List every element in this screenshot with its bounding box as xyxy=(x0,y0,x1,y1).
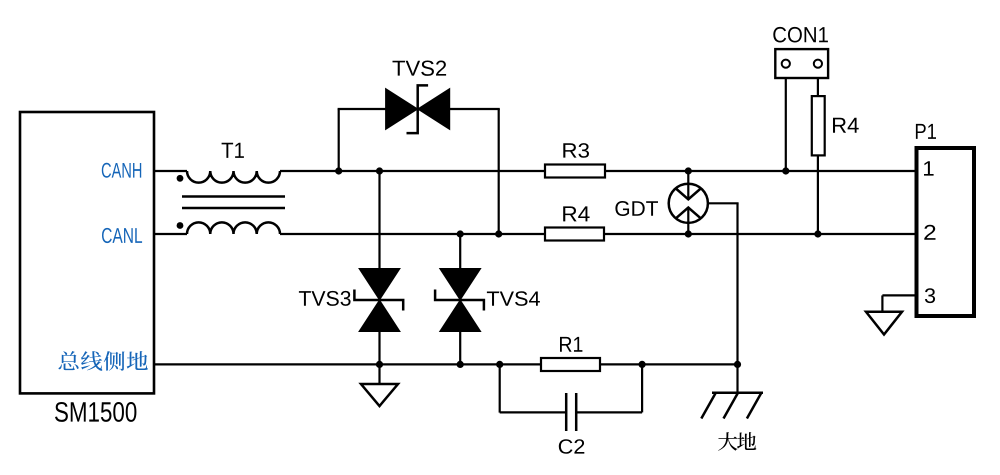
wire CON1 pin1 to CANH xyxy=(785,78,787,171)
transformer T1 core xyxy=(182,195,285,198)
junction bus/TVS3 xyxy=(376,361,383,368)
gas discharge tube GDT xyxy=(669,184,708,223)
label TVS2 xyxy=(392,60,446,75)
transformer T1 secondary winding xyxy=(187,222,280,234)
T1 secondary polarity dot xyxy=(177,222,184,229)
label C2 xyxy=(559,439,585,454)
ground symbol (below TVS3) xyxy=(378,364,380,384)
wire TVS4 top leg xyxy=(459,234,461,269)
wire GDT top electrode xyxy=(687,171,689,199)
wire CON1 pin2 to R4 xyxy=(817,78,819,96)
wire R4 to CANL xyxy=(817,155,819,234)
T1 primary polarity dot xyxy=(177,175,184,182)
TVS diode TVS2 xyxy=(386,89,418,130)
wire P1 pin3 to ground xyxy=(882,294,916,296)
wire GDT to earth xyxy=(708,202,739,204)
wire C2 branch left xyxy=(499,364,501,412)
wire C2 branch right xyxy=(576,411,642,413)
label GDT xyxy=(615,201,658,216)
junction bus/earth/GDT xyxy=(734,361,741,368)
label 大地 (earth) xyxy=(718,432,756,451)
label R4 (CON1 branch) xyxy=(833,118,859,133)
wire GDT bottom electrode xyxy=(687,208,689,235)
transformer T1 primary winding xyxy=(187,171,280,183)
label R4 (series CANL) xyxy=(563,206,589,221)
junction bus/C2 branch xyxy=(496,361,503,368)
junction R1/C2 right xyxy=(639,361,646,368)
wire CANH R3 to P1 xyxy=(605,170,917,172)
pin number 2 xyxy=(924,225,935,240)
wire CANL R4 to P1 xyxy=(604,233,917,235)
junction CANH/TVS2 xyxy=(335,167,342,174)
wire CANL SM1500 to T1 xyxy=(154,233,187,235)
TVS diode TVS3 xyxy=(359,269,400,301)
wire TVS4 bottom leg xyxy=(459,332,461,365)
junction CANH/TVS3 xyxy=(376,167,383,174)
wire CANH SM1500 to T1 xyxy=(154,170,187,172)
label SM1500 xyxy=(55,402,136,422)
pin label CANH xyxy=(102,163,141,178)
wire TVS3 top leg xyxy=(378,171,380,269)
wire TVS3 bottom leg xyxy=(378,332,380,365)
connector CON1 xyxy=(775,49,828,78)
label T1 xyxy=(222,143,244,158)
wire CANL T1 to R4 xyxy=(280,233,545,235)
label R1 xyxy=(560,337,582,352)
capacitor C2 xyxy=(565,393,568,431)
pin label CANL xyxy=(102,228,142,243)
wire CANH T1 to R3 xyxy=(280,170,545,172)
wire TVS2 right leg xyxy=(450,108,500,110)
pin label 总线侧地 (bus-side ground) xyxy=(58,351,147,371)
label TVS3 xyxy=(299,291,351,306)
TVS diode TVS4 xyxy=(440,269,481,301)
pin number 1 xyxy=(924,161,934,175)
junction CANL/TVS4 xyxy=(457,230,464,237)
junction CANL/R4 xyxy=(814,230,821,237)
connector P1 xyxy=(917,148,975,316)
junction CANH/GDT xyxy=(685,167,692,174)
junction bus/TVS4 xyxy=(457,361,464,368)
wire TVS2 left leg xyxy=(338,109,340,171)
label R3 xyxy=(563,143,589,158)
label TVS4 xyxy=(487,291,540,306)
resistor R3 xyxy=(545,165,605,178)
junction CANL/TVS2 xyxy=(495,230,502,237)
ground symbol (P1 pin3) xyxy=(866,312,902,335)
resistor R4 (CON1 branch) xyxy=(812,96,825,155)
IC SM1500 xyxy=(20,112,154,393)
junction CANL/GDT xyxy=(685,230,692,237)
resistor R1 xyxy=(541,358,600,371)
resistor R4 (series CANL) xyxy=(545,228,604,241)
wire bus R1 to earth junction xyxy=(600,363,738,365)
label CON1 xyxy=(773,27,828,43)
label P1 xyxy=(916,124,936,139)
junction CANH/CON1 xyxy=(782,167,789,174)
wire bus-side ground from SM1500 xyxy=(154,363,541,365)
pin number 3 xyxy=(925,288,935,303)
earth ground symbol xyxy=(736,364,738,392)
